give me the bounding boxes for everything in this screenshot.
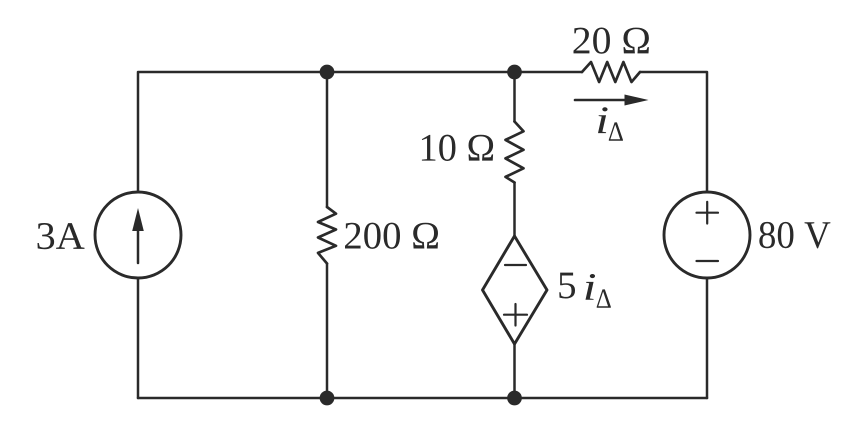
label 5 i-delta: i xyxy=(585,274,595,300)
wire bottom rail xyxy=(138,397,707,400)
junction dot bottom 200ohm xyxy=(320,391,335,406)
wire 200ohm branch bottom xyxy=(326,264,329,399)
resistor 10 ohm (vertical) xyxy=(506,122,524,183)
resistor 20 ohm (horizontal, top right) xyxy=(582,62,640,82)
label 5 i-delta: 5 (dependent source gain) xyxy=(559,273,575,299)
junction dot bottom 10ohm xyxy=(507,391,522,406)
voltage source 80V (circle) xyxy=(664,192,750,278)
wire 10ohm branch top xyxy=(513,72,516,122)
junction dot node b (top, 200ohm) xyxy=(320,65,335,80)
wire 10ohm to dependent source xyxy=(513,183,516,237)
wire right bottom: 80V source to bottom rail xyxy=(706,278,709,398)
label 3A xyxy=(38,223,85,249)
label i-delta: i (current through 20 ohm) xyxy=(598,107,608,133)
junction dot node c (top, 10ohm) xyxy=(507,65,522,80)
label i-delta: delta subscript xyxy=(609,122,623,140)
plus sign inside 80V source xyxy=(697,202,719,224)
label 5 i-delta: delta subscript xyxy=(597,289,611,307)
dependent source 5i (diamond) xyxy=(483,236,548,344)
arrow shaft of i-delta current label xyxy=(575,99,627,102)
arrowhead inside current source xyxy=(132,208,144,231)
minus sign inside 80V source xyxy=(697,260,719,262)
label 200 ohm xyxy=(345,223,438,249)
current source I1 3A (circle) xyxy=(95,192,181,278)
minus sign inside diamond xyxy=(505,264,526,266)
label 80 V xyxy=(759,222,830,249)
wire top right corner down to 80V source xyxy=(640,72,707,192)
label 10 ohm xyxy=(422,135,493,161)
label 20 ohm xyxy=(573,27,648,53)
wire dependent source to bottom rail xyxy=(513,344,516,398)
wire left bottom: current source to bottom rail xyxy=(137,278,140,398)
wire top left: node a to node b xyxy=(138,72,582,192)
arrowhead of i-delta current arrow xyxy=(625,95,649,106)
plus sign inside diamond xyxy=(504,304,527,326)
arrow shaft inside current source xyxy=(137,228,140,263)
resistor 200 ohm (vertical) xyxy=(318,207,336,264)
wire 200ohm branch top xyxy=(326,72,329,207)
